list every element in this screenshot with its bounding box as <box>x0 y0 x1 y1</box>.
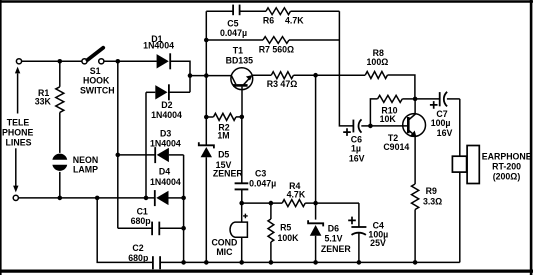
transistor T1 BD135 <box>231 68 253 90</box>
label R9 3.3Ω <box>423 186 442 207</box>
svg-text:PHONE: PHONE <box>2 128 33 138</box>
svg-text:R7 560Ω: R7 560Ω <box>259 45 294 55</box>
resistor R9 <box>412 184 419 262</box>
label D1 1N4004 <box>143 34 174 51</box>
svg-text:BD135: BD135 <box>226 55 253 65</box>
label C4 100µ 25V <box>368 221 388 248</box>
svg-text:C3: C3 <box>255 168 266 178</box>
wire: feedback vertical to C6 <box>339 11 353 126</box>
label mic polarity + <box>243 214 248 219</box>
label R1 33K <box>35 88 52 107</box>
svg-text:1N4004: 1N4004 <box>150 139 181 149</box>
junction: T2 collector node <box>413 97 418 102</box>
svg-text:MIC: MIC <box>216 247 233 257</box>
label COND MIC <box>211 238 237 257</box>
label S1 HOOK SWITCH <box>80 66 115 95</box>
switch S1 lever <box>87 48 103 60</box>
resistor R7 <box>206 37 339 44</box>
label C1 680p <box>131 206 152 226</box>
svg-text:3.3Ω: 3.3Ω <box>423 197 442 207</box>
wire: bridge output to T1 base <box>190 75 231 77</box>
resistor R3 <box>253 72 316 79</box>
svg-text:10K: 10K <box>380 114 397 124</box>
capacitor C5 <box>206 5 266 16</box>
wire: D3 anode down right vertical <box>183 155 185 263</box>
svg-text:1M: 1M <box>217 130 229 140</box>
junction: R2 left <box>204 115 209 120</box>
junction: D3/D4 right node <box>181 196 186 201</box>
svg-text:0.047µ: 0.047µ <box>220 28 247 38</box>
resistor R10 <box>370 95 415 126</box>
wire: C2 branch down <box>97 198 152 263</box>
wire: T2 collector up <box>414 99 416 114</box>
svg-text:R9: R9 <box>426 186 437 196</box>
label C2 680p <box>128 243 149 263</box>
junction: ground/main vertical <box>204 260 209 265</box>
wire: earphone vertical <box>459 99 461 263</box>
svg-text:C9014: C9014 <box>383 142 409 152</box>
transistor T2 C9014 <box>403 114 426 137</box>
label T1 BD135 <box>226 45 253 65</box>
label R2 1M <box>217 123 229 141</box>
svg-text:D4: D4 <box>159 167 170 177</box>
switch S1 pole terminal <box>82 59 87 64</box>
label C3 0.047µ <box>249 168 276 188</box>
junction: R1 top <box>58 59 63 64</box>
switch S1 throw terminal <box>99 59 104 64</box>
zener diode D6 <box>308 203 323 262</box>
junction: D3 branch on bridge left vertical <box>116 153 121 158</box>
node: telephone line ring terminal <box>13 195 18 200</box>
junction: R1/lamp bottom <box>58 196 63 201</box>
label C6 polarity + <box>343 128 351 136</box>
junction: base line on main vertical <box>204 73 209 78</box>
wire: supply vertical from R3 line <box>315 75 317 203</box>
label C5 0.047µ <box>220 18 247 38</box>
junction: mic / C3 / bias rail <box>239 201 244 206</box>
svg-text:0.047µ: 0.047µ <box>249 178 276 188</box>
junction: T1 collector / R2 / C3 <box>240 115 245 120</box>
label D6 5.1V ZENER <box>321 223 351 254</box>
svg-text:R3 47Ω: R3 47Ω <box>267 79 298 89</box>
diode D1 1N4004 <box>157 53 171 69</box>
svg-text:HOOK: HOOK <box>83 76 110 86</box>
capacitor C1 <box>118 222 184 236</box>
junction: R3/R8/supply <box>313 73 318 78</box>
svg-text:RT-200: RT-200 <box>492 161 521 171</box>
svg-text:TELE: TELE <box>7 117 30 127</box>
junction: D6 / supply tap <box>313 201 318 206</box>
label R5 100K <box>277 222 299 242</box>
junction: ground/mic <box>239 260 244 265</box>
junction: T2 base / R10 / C6 <box>368 124 373 129</box>
label D5 15V ZENER <box>213 150 243 179</box>
capacitor C6 <box>353 119 370 132</box>
wire: main vertical (top line to D5) <box>205 11 207 145</box>
arrow: line direction up <box>15 67 20 114</box>
wire: T2 base lead <box>370 125 407 127</box>
junction: R7 tap <box>204 38 209 43</box>
junction: ground/D3 vertical <box>181 260 186 265</box>
junction: ground/R9 <box>413 260 418 265</box>
svg-text:25V: 25V <box>370 238 386 248</box>
neon lamp <box>52 154 67 198</box>
earphone RT-200 <box>452 146 479 184</box>
diode D2 1N4004 <box>146 84 190 100</box>
capacitor C3 <box>235 117 249 203</box>
label EARPHONE RT-200 (200Ω) <box>482 151 532 181</box>
label TELE PHONE LINES <box>2 117 33 147</box>
svg-text:(200Ω): (200Ω) <box>493 172 521 182</box>
svg-text:1N4004: 1N4004 <box>143 41 174 51</box>
junction: ground/C4 <box>357 260 362 265</box>
junction: C2 branch <box>95 196 100 201</box>
svg-text:R5: R5 <box>280 222 291 232</box>
junction: C1 right node <box>181 226 186 231</box>
label R3 47Ω <box>267 79 298 89</box>
svg-text:C2: C2 <box>132 243 143 253</box>
label C7 100µ 16V <box>431 109 453 138</box>
resistor R2 <box>206 113 242 120</box>
capacitor C4 <box>351 203 366 262</box>
svg-text:100K: 100K <box>277 233 299 243</box>
resistor R1 <box>56 61 64 153</box>
svg-text:33K: 33K <box>35 97 52 107</box>
svg-text:LINES: LINES <box>6 138 32 148</box>
svg-text:T1: T1 <box>233 45 243 55</box>
svg-text:100Ω: 100Ω <box>367 57 389 67</box>
label D3 1N4004 <box>150 129 181 149</box>
svg-text:SWITCH: SWITCH <box>80 85 115 95</box>
svg-text:16V: 16V <box>437 128 453 138</box>
svg-text:16V: 16V <box>349 154 365 164</box>
label C6 1µ 16V <box>349 135 365 164</box>
capacitor C2 <box>153 256 160 269</box>
wire: D2 anode vertical to ring line <box>145 92 147 198</box>
svg-text:R6: R6 <box>263 15 274 25</box>
wire: switch to D1 anode <box>104 60 157 62</box>
wire: bias rail <box>242 202 283 204</box>
zener diode D5 <box>199 142 214 262</box>
resistor R6 <box>266 8 339 15</box>
wire: T1 collector down <box>241 87 243 117</box>
svg-text:5.1V: 5.1V <box>324 234 342 244</box>
svg-text:D5: D5 <box>218 150 229 160</box>
junction: D2/D4 anode node <box>144 196 149 201</box>
svg-text:4.7K: 4.7K <box>285 15 304 25</box>
svg-text:D2: D2 <box>161 100 172 110</box>
label R8 100Ω <box>367 48 389 67</box>
label R7 560Ω <box>259 45 294 55</box>
junction: ground/R5 <box>269 260 274 265</box>
svg-text:NEON: NEON <box>73 155 98 165</box>
wire: D1 cathode down to base node <box>170 61 190 92</box>
svg-text:ZENER: ZENER <box>321 244 351 254</box>
label NEON LAMP <box>73 155 98 175</box>
label R4 4.7K <box>287 181 306 199</box>
svg-text:680p: 680p <box>128 253 149 263</box>
svg-text:100µ: 100µ <box>431 118 451 128</box>
svg-text:S1: S1 <box>90 66 101 76</box>
svg-text:ZENER: ZENER <box>213 169 243 179</box>
diode D4 1N4004 <box>155 190 184 206</box>
wire: ring terminal line <box>18 197 154 199</box>
capacitor C7 <box>415 92 460 107</box>
resistor R8 <box>316 72 415 99</box>
label D4 1N4004 <box>150 167 181 187</box>
junction: hook line / bridge left vertical <box>116 59 121 64</box>
node: telephone line tip terminal <box>16 59 21 64</box>
label R10 10K <box>380 105 398 124</box>
svg-text:1N4004: 1N4004 <box>151 110 182 120</box>
wire: tip terminal to hook switch <box>22 60 82 62</box>
junction: R5 top <box>269 201 274 206</box>
junction: ground/D6 <box>313 260 318 265</box>
label T2 C9014 <box>383 133 409 152</box>
svg-text:680p: 680p <box>131 216 152 226</box>
svg-text:1N4004: 1N4004 <box>150 177 181 187</box>
wire: ground rail <box>161 261 460 263</box>
wire: T2 emitter down <box>414 137 416 185</box>
label C4 polarity + <box>348 217 356 225</box>
junction: D1/D2 cathode node <box>188 73 193 78</box>
label D2 1N4004 <box>151 100 182 120</box>
resistor R4 <box>282 200 359 207</box>
svg-text:C5: C5 <box>227 18 238 28</box>
svg-text:D6: D6 <box>328 223 339 233</box>
resistor R5 <box>268 203 274 262</box>
svg-text:C1: C1 <box>137 206 148 216</box>
wire: bridge left vertical <box>117 61 119 228</box>
svg-text:D3: D3 <box>160 129 171 139</box>
svg-text:LAMP: LAMP <box>73 165 98 175</box>
condenser microphone <box>230 203 247 262</box>
label R6 4.7K <box>263 15 304 25</box>
diode D3 1N4004 <box>118 147 184 163</box>
svg-text:1µ: 1µ <box>351 144 361 154</box>
svg-text:4.7K: 4.7K <box>287 189 306 199</box>
svg-text:EARPHONE: EARPHONE <box>482 151 532 161</box>
label C7 polarity + <box>430 101 438 109</box>
arrow: line direction down <box>13 148 18 192</box>
